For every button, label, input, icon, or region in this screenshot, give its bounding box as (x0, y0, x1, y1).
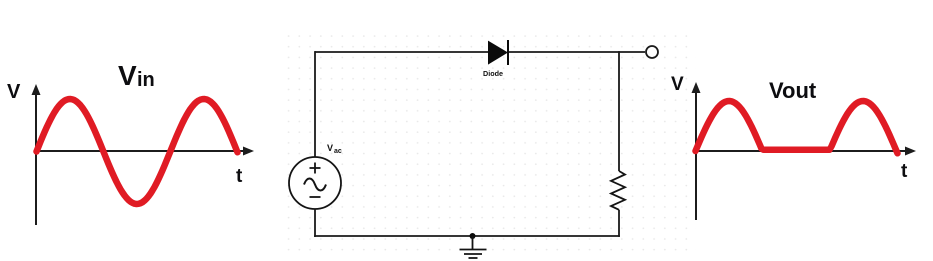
wire vertical axis (input graph) (32, 84, 41, 225)
svg-text:V: V (327, 143, 333, 153)
svg-text:t: t (236, 166, 243, 187)
AC source Vac (289, 157, 341, 209)
resistor R1 (611, 171, 625, 210)
node t axis label (output graph) (901, 161, 908, 182)
wire resistor bottom (618, 210, 620, 237)
diode D1 (489, 40, 509, 65)
svg-text:Vout: Vout (769, 78, 817, 103)
wire horizontal axis (output graph) (696, 147, 916, 156)
svg-text:t: t (901, 161, 908, 182)
svg-text:in: in (137, 69, 155, 91)
svg-text:ac: ac (334, 148, 342, 155)
node Vin label (118, 60, 155, 91)
wire vertical axis (output graph) (692, 82, 701, 220)
wire horizontal axis (input graph) (36, 147, 254, 156)
svg-text:V: V (7, 81, 21, 103)
wire top right (diode to terminal) (509, 51, 645, 53)
ground (460, 236, 487, 258)
node Vout label (769, 78, 817, 103)
wire bottom (source to resistor) (314, 235, 620, 237)
wire right vertical (terminal junction to resistor) (618, 51, 620, 171)
svg-text:Diode: Diode (483, 69, 503, 78)
wire source bottom (314, 209, 316, 237)
svg-text:V: V (671, 74, 684, 95)
node Vac label (327, 143, 342, 155)
Vout waveform (half-wave rectified) (696, 101, 898, 153)
output terminal (open circle) (646, 46, 658, 58)
node V axis label (input graph) (7, 81, 21, 103)
node t axis label (input graph) (236, 166, 243, 187)
junction node (ground tap) (470, 233, 476, 239)
node V axis label (output graph) (671, 74, 684, 95)
wire top (source to diode to output) (315, 51, 488, 53)
Vin waveform (sine) (37, 99, 238, 204)
wire left vertical (top to source) (314, 51, 316, 157)
svg-text:V: V (118, 60, 137, 91)
